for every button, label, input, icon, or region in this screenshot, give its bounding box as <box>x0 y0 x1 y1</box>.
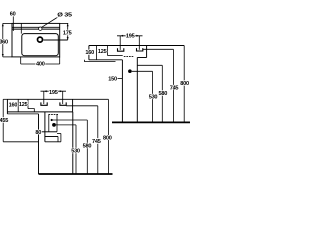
svg-text:800: 800 <box>103 136 112 142</box>
fixing slot right <box>137 48 143 51</box>
fixing slot left <box>41 102 47 105</box>
dimension 60 extension <box>12 16 14 31</box>
shelf <box>137 57 146 59</box>
outlet dot <box>128 69 132 73</box>
trap box bottom and 80 dim line <box>42 131 58 133</box>
svg-text:580: 580 <box>159 91 168 97</box>
fixing slot left <box>118 48 124 51</box>
530 extension <box>132 70 153 72</box>
under lip line <box>7 113 38 115</box>
drain <box>38 37 43 42</box>
under lip line <box>84 60 115 62</box>
pedestal right edge <box>72 112 74 174</box>
elbow outlet step <box>57 133 61 135</box>
svg-text:160: 160 <box>9 103 18 109</box>
label 150 with leader <box>118 78 123 80</box>
trap pipe outer left <box>44 112 46 142</box>
trap box right <box>56 115 58 132</box>
basin bottom <box>89 59 123 61</box>
745 vertical <box>97 106 99 174</box>
tap hole <box>39 27 42 30</box>
svg-text:360: 360 <box>0 40 8 46</box>
basin rim top and 800 extension <box>7 98 108 100</box>
svg-text:800: 800 <box>180 81 189 87</box>
svg-text:195: 195 <box>49 90 58 96</box>
trap box left <box>48 115 50 132</box>
elbow inner vertical <box>57 137 59 142</box>
svg-text:125: 125 <box>19 102 28 108</box>
basin outline plan <box>12 23 60 57</box>
basin left edge <box>6 99 8 114</box>
elbow bottom <box>45 141 61 143</box>
svg-text:125: 125 <box>98 49 107 55</box>
svg-text:80: 80 <box>35 130 41 136</box>
580 vertical <box>86 120 88 174</box>
hidden drain dashes <box>49 113 59 115</box>
fixing slot right <box>60 102 66 105</box>
inlet dot <box>51 119 53 121</box>
datum line 125 <box>28 109 34 112</box>
svg-text:745: 745 <box>92 139 101 145</box>
svg-text:530: 530 <box>149 95 158 101</box>
dimension 195 <box>117 35 143 50</box>
580 vertical <box>161 65 163 122</box>
hidden drain dashes <box>124 56 133 58</box>
pedestal left edge <box>38 114 40 174</box>
svg-text:580: 580 <box>83 144 92 150</box>
floor line right <box>112 121 190 123</box>
530 vertical <box>75 125 77 174</box>
800 vertical <box>183 46 185 123</box>
svg-text:455: 455 <box>0 118 8 124</box>
pipe left <box>121 60 123 122</box>
dimension 175 line <box>60 23 69 40</box>
455 bottom line <box>3 141 38 143</box>
bowl outline <box>22 34 59 56</box>
datum line 125 <box>108 55 123 57</box>
745 extension <box>66 105 98 107</box>
basin left edge <box>88 46 90 60</box>
wall edge <box>146 46 148 58</box>
svg-text:Ø 35: Ø 35 <box>57 12 72 18</box>
ledge line lower <box>12 28 60 30</box>
inner vertical b <box>27 99 29 108</box>
outlet dot <box>52 123 56 127</box>
basin bottom <box>7 111 72 113</box>
530 extension <box>56 124 76 126</box>
svg-text:60: 60 <box>10 12 16 18</box>
pipe right <box>136 58 138 123</box>
svg-text:530: 530 <box>71 149 80 155</box>
basin rim top and 800 extension <box>89 45 184 47</box>
bowl edge extension <box>20 23 22 33</box>
elbow top <box>45 136 58 138</box>
floor line left <box>39 173 113 175</box>
455 vertical <box>2 99 4 141</box>
svg-text:400: 400 <box>36 62 45 68</box>
dimension 360 line <box>2 23 12 57</box>
ledge line upper <box>12 26 60 28</box>
530 vertical <box>152 71 154 122</box>
basin right edge <box>72 99 74 112</box>
svg-text:745: 745 <box>170 85 179 91</box>
leader line Ø35 <box>42 17 59 28</box>
svg-text:175: 175 <box>63 30 72 36</box>
inner vertical a <box>17 99 19 112</box>
drain centre line <box>43 39 67 41</box>
580 extension <box>137 64 162 66</box>
svg-text:160: 160 <box>85 50 94 56</box>
745 extension <box>143 48 174 50</box>
455 top extension <box>3 98 7 100</box>
inner vertical a <box>95 46 97 60</box>
745 vertical <box>172 49 174 122</box>
dimension 195 <box>41 90 67 104</box>
800 vertical <box>107 99 109 174</box>
580 extension <box>53 119 88 121</box>
dimension 400 bracket <box>21 57 60 64</box>
elbow right vertical <box>60 134 62 142</box>
svg-text:195: 195 <box>126 34 135 40</box>
inner vertical b <box>107 46 109 56</box>
svg-text:150: 150 <box>108 77 117 83</box>
